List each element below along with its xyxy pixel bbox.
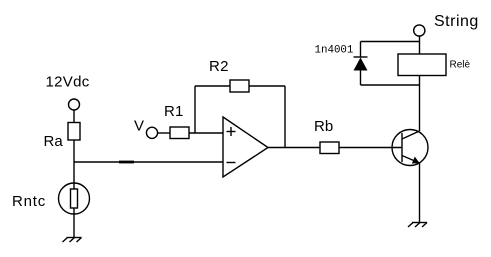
svg-text:1n4001: 1n4001 — [315, 44, 354, 56]
ground right — [408, 223, 427, 228]
svg-text:Rb: Rb — [314, 118, 333, 135]
terminal 12Vdc — [69, 99, 80, 110]
wire emitter to ground — [419, 163, 421, 223]
wire String terminal to collector — [419, 36, 421, 131]
svg-text:Ra: Ra — [44, 133, 64, 150]
diode 1n4001 — [354, 42, 368, 86]
relay K1 — [398, 54, 446, 76]
ground left — [63, 238, 82, 243]
svg-text:R1: R1 — [164, 103, 184, 120]
resistor R2 — [230, 80, 249, 92]
terminal V — [146, 127, 157, 138]
wire diode bottom branch — [361, 84, 420, 86]
terminal String — [414, 25, 425, 36]
wire V to R1 — [158, 132, 170, 134]
resistor Rb — [320, 142, 339, 154]
wire Rntc to ground — [73, 208, 75, 238]
wire overlap segment — [119, 161, 134, 164]
wire R1 to op-amp non-inverting input — [189, 132, 223, 134]
op-amp U1 — [223, 117, 268, 177]
svg-text:R2: R2 — [209, 58, 229, 75]
op-amp minus input mark — [227, 162, 236, 164]
transistor Q1 — [392, 130, 428, 166]
svg-text:Relè: Relè — [450, 59, 471, 70]
svg-text:Rntc: Rntc — [12, 193, 46, 210]
wire Ra to Rntc — [73, 140, 75, 200]
wire op-amp output — [268, 147, 402, 149]
wire feedback right vertical — [284, 86, 286, 148]
wire terminal to Ra — [73, 110, 75, 123]
wire node to op-amp inverting input — [74, 161, 223, 163]
svg-text:12Vdc: 12Vdc — [46, 74, 90, 91]
wire feedback left vertical — [194, 86, 196, 133]
svg-text:V: V — [134, 117, 144, 134]
wire feedback top — [195, 85, 285, 87]
svg-text:String: String — [434, 13, 479, 30]
wire diode top branch — [361, 41, 420, 43]
thermistor Rntc — [59, 183, 90, 214]
resistor Ra — [68, 123, 80, 141]
op-amp plus input mark — [227, 127, 236, 136]
resistor R1 — [170, 127, 189, 139]
